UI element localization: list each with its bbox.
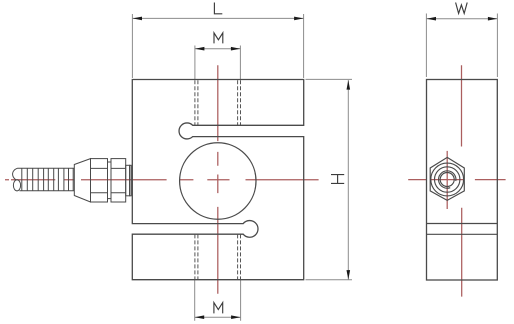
- cable body lines: [18, 168, 75, 191]
- dim M bottom extension lines: [195, 280, 241, 321]
- dim H extension lines: [306, 79, 353, 279]
- arrow H top: [347, 80, 351, 90]
- side slot lines: [427, 224, 498, 235]
- labels (drawn as CAD-style strokes): [214, 3, 467, 314]
- arrow W right: [488, 17, 498, 21]
- threaded hole top (dashed): [195, 80, 241, 279]
- dim W extension lines: [426, 14, 497, 78]
- label M bottom: [214, 303, 223, 314]
- label W: [456, 3, 468, 14]
- centerline horizontal (front view, y=179.8): [5, 179, 319, 181]
- cable ribs: [22, 168, 73, 191]
- gland ring: [108, 162, 112, 199]
- strain-relief cone: [74, 159, 90, 202]
- dim M top line: [195, 48, 241, 50]
- nut circle: [435, 167, 460, 192]
- central circle: [180, 143, 256, 219]
- cable break (S-curve with loop): [13, 168, 18, 180]
- thread major circle (arc with gap): [439, 171, 456, 188]
- arrow M bottom left: [195, 315, 205, 319]
- threaded hole bottom (dashed): [195, 234, 241, 279]
- body outline with S-slots: [132, 80, 303, 280]
- dim L extension lines: [132, 14, 303, 78]
- arrow L left: [133, 17, 143, 21]
- thread minor circle: [440, 173, 454, 187]
- label H (rotated): [331, 175, 344, 184]
- arrow M top left: [195, 47, 205, 51]
- arrow M top right: [231, 47, 241, 51]
- centerline vertical (front view, x=217.8): [217, 65, 219, 294]
- hexagon: [430, 157, 464, 200]
- gland nut 2: [111, 159, 126, 202]
- gland collar lip: [130, 165, 132, 196]
- chamfer circle: [431, 163, 464, 196]
- arrow M bottom right: [231, 315, 241, 319]
- label L: [214, 3, 222, 14]
- label M top: [214, 33, 223, 44]
- dim L line: [133, 17, 304, 19]
- dim M bottom line: [195, 316, 241, 318]
- arrow W left: [427, 17, 437, 21]
- dim M top extension lines: [195, 46, 241, 80]
- arrowheads: [133, 17, 498, 319]
- hex gland (side view): [430, 157, 464, 200]
- centerline vertical (side view body, x=461.6): [461, 65, 463, 296]
- dim W line: [427, 18, 498, 20]
- arrow L right: [294, 17, 304, 21]
- arrow H bottom: [347, 270, 351, 280]
- gland nut 1: [91, 159, 108, 202]
- gland collar: [126, 165, 130, 196]
- centerline vertical (hex gland, x=447.2): [446, 151, 448, 209]
- side body rectangle: [427, 80, 498, 281]
- centerline horizontal (side view, y=179.6): [408, 179, 505, 181]
- dim H line: [347, 80, 349, 280]
